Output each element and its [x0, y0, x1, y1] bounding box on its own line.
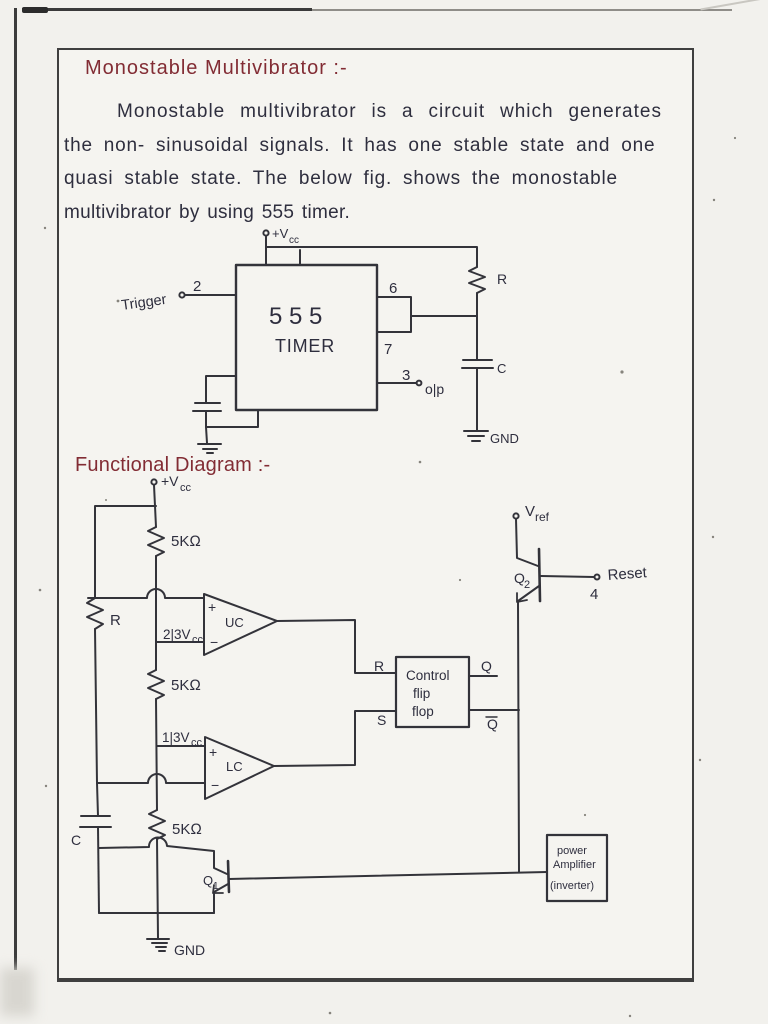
- wire Vcc rail to resistor R: [266, 247, 477, 267]
- svg-text:3: 3: [402, 367, 410, 384]
- svg-text:1: 1: [213, 881, 219, 892]
- svg-text:R: R: [374, 658, 384, 674]
- wire Vref to Q2 collector: [516, 519, 538, 566]
- svg-text:4: 4: [590, 586, 598, 603]
- wire trigger to pin 2: [185, 294, 236, 296]
- scan artifact: top-right faint diagonal: [700, 0, 768, 10]
- wire cap to bottom rail: [98, 827, 99, 913]
- control flip flop box: [396, 657, 469, 727]
- scan specks: [39, 137, 736, 1017]
- svg-text:cc: cc: [192, 634, 204, 646]
- svg-text:+V: +V: [161, 473, 179, 489]
- svg-text:o|p: o|p: [425, 381, 444, 397]
- wire divider mid lower: [156, 699, 157, 810]
- wire pin 4 stub: [299, 250, 301, 265]
- transistor Q2 emitter: [518, 586, 539, 601]
- wire UC output to R input: [277, 620, 396, 673]
- svg-text:2: 2: [193, 278, 201, 295]
- svg-text:cc: cc: [180, 482, 192, 494]
- svg-text:−: −: [210, 634, 218, 650]
- svg-text:C: C: [71, 832, 81, 848]
- node +Vcc terminal: [151, 479, 156, 484]
- page frame: [57, 48, 694, 982]
- svg-text:Trigger: Trigger: [120, 292, 167, 314]
- wire pin 3 output: [377, 382, 416, 384]
- wire cap junction to Q1 collector with hop: [99, 837, 227, 874]
- wire threshold to UC+ with hop: [88, 589, 204, 598]
- svg-text:LC: LC: [226, 759, 243, 774]
- wire 5k lower to gnd: [157, 839, 158, 938]
- svg-text:cc: cc: [289, 235, 299, 246]
- title: Monostable Multivibrator: [85, 57, 348, 80]
- wire bottom rail: [99, 912, 214, 914]
- wire pin 1 to bypass capacitor: [206, 376, 236, 402]
- paragraph: [117, 101, 662, 123]
- wire divider mid upper: [155, 556, 157, 670]
- svg-text:cc: cc: [191, 737, 203, 749]
- resistor 5k upper: [148, 527, 164, 556]
- svg-text:Q: Q: [203, 873, 213, 888]
- svg-text:flop: flop: [412, 704, 434, 719]
- node output terminal: [417, 381, 422, 386]
- resistor 5k middle: [148, 670, 164, 699]
- svg-text:ref: ref: [535, 510, 550, 524]
- svg-text:5KΩ: 5KΩ: [172, 821, 202, 838]
- wire Qbar output: [469, 709, 519, 711]
- heading: Functional Diagram: [75, 454, 270, 477]
- svg-text:R: R: [497, 271, 507, 287]
- wire Q2 base to reset: [541, 576, 594, 577]
- op-amp LC comparator: [205, 737, 274, 799]
- svg-text:+V: +V: [272, 226, 289, 241]
- wire 2/3 Vcc tap to UC-: [156, 641, 204, 643]
- svg-text:R: R: [110, 612, 121, 629]
- svg-text:C: C: [497, 361, 506, 376]
- power amplifier box: [547, 835, 607, 901]
- ground functional: [147, 939, 169, 951]
- ground GND: [464, 431, 488, 441]
- wire R to capacitor C: [476, 293, 478, 359]
- node +Vcc terminal: [263, 230, 268, 235]
- resistor 5k lower: [149, 810, 165, 839]
- svg-text:(inverter): (inverter): [550, 880, 594, 892]
- svg-text:2|3V: 2|3V: [163, 627, 191, 642]
- svg-text:2: 2: [524, 579, 530, 591]
- node Vref terminal: [513, 513, 518, 518]
- transistor Q2 bar: [539, 549, 540, 601]
- svg-text:+: +: [208, 599, 216, 615]
- wire Vcc down to divider: [154, 485, 156, 527]
- wire capacitor ground stub: [206, 427, 207, 443]
- wire LC output to S input: [274, 711, 396, 766]
- wire left rail mid: [95, 629, 98, 816]
- wire top branch to left rail: [95, 506, 156, 598]
- wire Q1 to power amplifier: [229, 872, 547, 879]
- wire pin6/7 to RC junction: [411, 315, 477, 317]
- svg-text:flip: flip: [413, 686, 430, 701]
- svg-text:−: −: [211, 777, 219, 793]
- op-amp UC comparator: [204, 594, 277, 655]
- svg-text:Q: Q: [481, 658, 492, 674]
- wire Q output: [469, 675, 497, 677]
- wire C to ground: [476, 368, 478, 430]
- svg-text:S: S: [377, 712, 386, 728]
- svg-text:GND: GND: [490, 431, 519, 446]
- svg-text:5 5 5: 5 5 5: [269, 303, 322, 330]
- svg-text:V: V: [525, 503, 535, 520]
- svg-text:Q: Q: [487, 716, 498, 732]
- transistor Q1 emitter arrow: [213, 885, 223, 893]
- scan artifact: top edge line: [22, 8, 312, 11]
- wire Q1 emitter down: [213, 893, 215, 913]
- transistor Q2 emitter arrow: [517, 593, 527, 602]
- scan artifact: bottom-left gray wash: [0, 968, 34, 1016]
- svg-text:5KΩ: 5KΩ: [171, 677, 201, 694]
- scan artifact: left edge line: [14, 8, 17, 970]
- wire 1/3 Vcc tap to LC+: [157, 745, 205, 747]
- ic 555 timer box: [236, 265, 377, 410]
- resistor R left rail: [87, 598, 103, 629]
- svg-text:1|3V: 1|3V: [162, 730, 190, 745]
- ground bypass: [198, 444, 221, 453]
- svg-text:Control: Control: [406, 668, 450, 683]
- wire Vcc to pin 8: [265, 236, 267, 265]
- svg-text:GND: GND: [174, 942, 205, 958]
- wire Q2 emitter down to power amp rail: [518, 601, 519, 872]
- svg-text:power: power: [557, 845, 587, 857]
- capacitor C: [462, 360, 493, 368]
- svg-text:TIMER: TIMER: [275, 336, 335, 356]
- node reset terminal: [595, 575, 600, 580]
- transistor Q1 emitter: [214, 884, 228, 892]
- svg-text:6: 6: [389, 280, 397, 297]
- capacitor C left rail: [80, 816, 111, 827]
- svg-text:Reset: Reset: [607, 564, 648, 584]
- svg-text:+: +: [209, 744, 217, 760]
- wire capacitor to ground and box bottom: [206, 410, 258, 427]
- node trigger terminal: [179, 292, 184, 297]
- svg-text:UC: UC: [225, 615, 244, 630]
- transistor Q1 bar: [228, 861, 229, 892]
- capacitor bypass: [193, 403, 221, 411]
- wire trigger to LC- with hop: [97, 774, 205, 783]
- svg-text:Amplifier: Amplifier: [553, 859, 596, 871]
- resistor R: [469, 267, 485, 293]
- svg-text:5KΩ: 5KΩ: [171, 533, 201, 550]
- wire pins 6-7 loop: [377, 297, 411, 332]
- svg-text:7: 7: [384, 341, 392, 358]
